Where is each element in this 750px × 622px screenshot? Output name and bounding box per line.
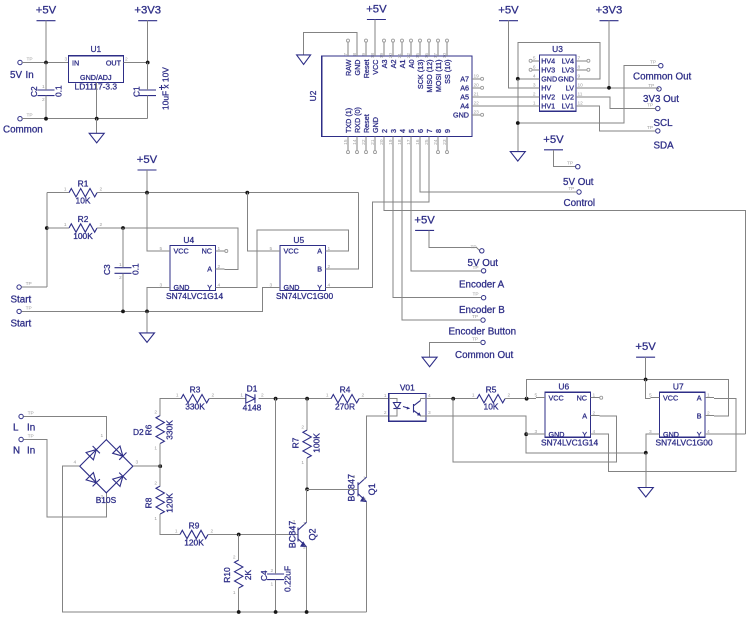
svg-text:Reset: Reset (362, 60, 371, 79)
wire LV row to 3V3 Out (585, 88, 659, 89)
svg-text:10: 10 (578, 82, 584, 88)
wire R1/R2 left vertical to Start (46, 193, 48, 287)
svg-text:1: 1 (176, 393, 179, 399)
ground under U1 (89, 133, 104, 143)
svg-text:Q1: Q1 (367, 483, 377, 495)
svg-text:LD1117-3.3: LD1117-3.3 (75, 82, 118, 92)
node 5V In / C2 junction (44, 61, 48, 65)
svg-text:TP: TP (472, 314, 478, 320)
testpoint Control (577, 190, 581, 194)
capacitor C3 0.1 (102, 262, 141, 281)
svg-text:R1: R1 (78, 179, 89, 189)
node R10/rail (237, 610, 241, 614)
wire Q2 emitter down (306, 547, 308, 612)
svg-text:U7: U7 (673, 382, 684, 392)
svg-text:SDA: SDA (654, 141, 675, 152)
U2 bottom pin 2 (383, 137, 385, 151)
testpoint L In (19, 414, 23, 418)
node U1 GND/common (95, 117, 99, 121)
wire Start2 ground rail (21, 288, 271, 312)
wire U2 A5 to U3 HV2 (480, 96, 531, 98)
testpoint 5V Out top (576, 165, 580, 169)
svg-text:HV4: HV4 (541, 56, 555, 65)
svg-text:10K: 10K (76, 196, 91, 206)
svg-text:4: 4 (398, 129, 407, 133)
svg-text:4148: 4148 (243, 403, 262, 413)
wire stub to ground under U1 (96, 119, 98, 134)
node V01 emitter/U6 GND (524, 432, 528, 436)
svg-text:D2: D2 (133, 427, 144, 437)
wire D1 to R4 (259, 398, 332, 400)
svg-text:U2: U2 (308, 90, 318, 101)
U3 right pin LV4 (576, 60, 587, 62)
svg-text:2: 2 (125, 57, 128, 63)
svg-text:22: 22 (406, 53, 412, 59)
testpoint SCL (656, 106, 660, 110)
U2 right pin A5 (472, 96, 480, 98)
svg-text:Reset: Reset (362, 114, 371, 133)
svg-text:VCC: VCC (174, 247, 189, 256)
wire U1 GND pin down (96, 82, 98, 118)
svg-text:1: 1 (363, 476, 366, 482)
U3 right pin GND (576, 78, 585, 80)
svg-text:In: In (27, 446, 35, 457)
svg-text:1: 1 (42, 84, 45, 90)
svg-text:OUT: OUT (106, 59, 122, 68)
wire R7 bottom to Q1 base node (306, 458, 308, 489)
wire R7 top (306, 399, 308, 430)
wire R3 to D1 (209, 398, 246, 400)
testpoint 5V In (18, 60, 22, 64)
svg-text:B: B (697, 411, 702, 420)
wire +5V to U3 HV (509, 21, 532, 88)
svg-text:D1: D1 (247, 384, 258, 394)
svg-text:GND: GND (371, 117, 380, 133)
svg-text:20: 20 (388, 53, 394, 59)
wire +5V to 5V Out TP (554, 150, 576, 167)
U3 left pin HV3 (532, 69, 539, 71)
node R2/C3 (121, 226, 125, 230)
svg-text:LV2: LV2 (562, 92, 574, 101)
resistor R8 120K (144, 481, 175, 523)
svg-text:SN74LVC1G14: SN74LVC1G14 (166, 291, 223, 301)
svg-text:2: 2 (533, 91, 536, 97)
svg-text:15: 15 (415, 53, 421, 59)
svg-text:RAW: RAW (344, 59, 353, 76)
U2 bottom pin GND (374, 137, 376, 151)
svg-text:B: B (317, 265, 322, 274)
regulator U1 LD1117-3.3 (65, 44, 129, 92)
svg-text:3: 3 (389, 129, 398, 133)
U2 bottom pin 9 (446, 137, 448, 151)
node Q2 emitter/rail (305, 610, 309, 614)
node R2 left (45, 226, 49, 230)
svg-text:6: 6 (416, 129, 425, 133)
svg-text:6: 6 (533, 64, 536, 70)
svg-text:22: 22 (474, 100, 480, 106)
svg-text:TP: TP (27, 113, 33, 119)
wire U6 GND stub join (526, 433, 536, 435)
wire +5V to 5V In net (45, 21, 47, 63)
svg-text:TP: TP (471, 245, 477, 251)
svg-text:1: 1 (384, 393, 387, 399)
node D1/C4 column (274, 397, 278, 401)
svg-text:VCC: VCC (284, 247, 299, 256)
node bridge+ R6/R8 (158, 464, 162, 468)
capacitor C2 0.1 (29, 84, 64, 103)
svg-text:SCK (13): SCK (13) (416, 60, 425, 90)
U2 right pin A6 (472, 87, 480, 89)
wire U4.Y to U5.A (225, 230, 349, 288)
svg-text:R7: R7 (291, 437, 301, 448)
U2 right pin GND (472, 114, 480, 116)
U2 top pin VCC (374, 42, 376, 56)
svg-text:Common Out: Common Out (633, 72, 692, 83)
svg-text:LV: LV (566, 83, 574, 92)
bridge diode bottom-right (113, 476, 123, 486)
svg-text:R6: R6 (144, 424, 154, 435)
node OUT junction (146, 61, 150, 65)
svg-text:120K: 120K (165, 493, 175, 513)
ground for U2 top GND (297, 55, 311, 65)
svg-text:0.1: 0.1 (131, 263, 141, 275)
wire Start1 to R1/R2 (21, 286, 47, 288)
wire C3 top (122, 228, 124, 268)
wire +5V to U4 VCC (147, 193, 161, 251)
svg-text:SCL: SCL (654, 118, 674, 129)
svg-text:R4: R4 (340, 385, 351, 395)
wire R9 to Q2 base (208, 534, 298, 536)
wire V01 collector to U6.A (453, 399, 616, 462)
U6 NC open circle (600, 396, 603, 399)
svg-text:18: 18 (397, 139, 403, 145)
wire bridge right to R6/R8 node (133, 465, 160, 467)
svg-text:A: A (317, 247, 322, 256)
node +3V3/LV junction (607, 86, 611, 90)
svg-text:8: 8 (434, 129, 443, 133)
svg-text:19: 19 (474, 73, 480, 79)
svg-text:3: 3 (428, 410, 431, 416)
wire Common Out to U3 GND column (518, 66, 659, 123)
svg-text:C3: C3 (102, 264, 112, 275)
svg-text:A7: A7 (460, 74, 469, 83)
svg-text:SN74LVC1G00: SN74LVC1G00 (656, 438, 713, 448)
svg-text:2: 2 (301, 425, 304, 431)
svg-text:A5: A5 (460, 92, 469, 101)
svg-text:GND: GND (541, 74, 557, 83)
U3 right pin LV (576, 87, 585, 89)
U2 bottom pin 5 (410, 137, 412, 151)
resistor R9 120K (175, 520, 214, 547)
svg-text:TP: TP (473, 265, 479, 271)
wire R1 net down to U5 VCC (247, 193, 271, 251)
svg-text:1: 1 (64, 187, 67, 193)
svg-text:U3: U3 (552, 44, 563, 54)
svg-text:20: 20 (474, 82, 480, 88)
ground for Common Out (422, 357, 437, 367)
node U3 GND left (516, 77, 520, 81)
resistor R2 100K (64, 214, 103, 241)
svg-text:10uF x 10V: 10uF x 10V (161, 67, 171, 110)
U2 top pin A1 (401, 42, 403, 56)
MCU module U2 (308, 56, 472, 137)
svg-text:3: 3 (65, 57, 68, 63)
wire R4 to V01 pin1 (359, 398, 389, 400)
wire Q1 collector to V01 pin2 (367, 416, 389, 477)
svg-text:HV: HV (541, 83, 551, 92)
svg-text:Encoder A: Encoder A (459, 280, 505, 291)
wire stub to ground under U4 (146, 311, 148, 333)
svg-text:16: 16 (415, 139, 421, 145)
svg-text:+3V3: +3V3 (134, 5, 161, 17)
svg-text:5: 5 (533, 55, 536, 61)
svg-text:2: 2 (363, 497, 366, 503)
svg-text:120K: 120K (184, 538, 204, 548)
resistor R3 330K (176, 385, 215, 412)
wire U2 pin5 to Encoder A (411, 151, 481, 271)
svg-text:2: 2 (100, 222, 103, 228)
svg-text:A2: A2 (389, 60, 398, 69)
svg-text:+3V3: +3V3 (596, 5, 623, 17)
svg-text:B10S: B10S (96, 495, 117, 505)
svg-text:In: In (27, 423, 35, 434)
testpoint 3V3 Out (657, 87, 661, 91)
svg-text:VCC: VCC (371, 60, 380, 75)
svg-text:3: 3 (352, 474, 355, 480)
svg-text:MOSI (11): MOSI (11) (434, 60, 443, 93)
svg-text:1: 1 (326, 393, 329, 399)
svg-text:R5: R5 (486, 385, 497, 395)
wire U7 GND down (646, 434, 651, 453)
U2 top pin SCK (13) (419, 42, 421, 56)
wire R8 bottom to R9 (160, 514, 180, 535)
bridge rectifier B10S (74, 433, 139, 505)
testpoint SDA (656, 129, 660, 133)
resistor R6 330K (144, 410, 175, 452)
svg-text:SN74LVC1G00: SN74LVC1G00 (276, 291, 333, 301)
svg-text:+5V: +5V (635, 341, 656, 353)
U2 right pin A4 (472, 105, 480, 107)
wire +5V to 5V Out TP (429, 230, 480, 250)
wire +5V column to R1 net (146, 170, 148, 193)
svg-text:TP: TP (26, 305, 32, 311)
testpoint 5V Out mid (480, 249, 484, 253)
U2 top pin Reset (365, 42, 367, 56)
svg-text:MISO (12): MISO (12) (425, 60, 434, 93)
testpoint Common (18, 117, 22, 121)
svg-text:19: 19 (388, 139, 394, 145)
node R7/Q1 base/Q2 collector (305, 487, 309, 491)
svg-text:HV1: HV1 (541, 101, 555, 110)
U2 bottom pin 6 (419, 137, 421, 151)
testpoint Encoder B (481, 296, 485, 300)
svg-text:A: A (207, 265, 212, 274)
wire +3V3 to U3 LV / 3V3 Out (608, 21, 610, 88)
svg-text:2: 2 (508, 393, 511, 399)
svg-text:21: 21 (370, 139, 376, 145)
svg-text:2: 2 (154, 481, 157, 487)
svg-text:LV3: LV3 (562, 65, 574, 74)
svg-text:A0: A0 (407, 60, 416, 69)
svg-text:1: 1 (271, 582, 274, 588)
wire R6 top to R3 line (160, 399, 181, 416)
svg-text:C4: C4 (259, 570, 269, 581)
svg-text:2: 2 (380, 129, 389, 133)
node R7 top (305, 397, 309, 401)
testpoint Common Out mid (481, 340, 485, 344)
ground for U3 (510, 152, 525, 162)
svg-text:2: 2 (233, 555, 236, 561)
svg-text:16: 16 (424, 53, 430, 59)
svg-text:U1: U1 (90, 44, 101, 54)
svg-text:270R: 270R (335, 402, 355, 412)
U2 top pin GND (356, 42, 358, 56)
wire C4 bottom (275, 580, 277, 612)
svg-text:17: 17 (433, 53, 439, 59)
svg-text:HV2: HV2 (541, 92, 555, 101)
svg-text:18: 18 (370, 53, 376, 59)
svg-text:+5V: +5V (36, 5, 57, 17)
svg-text:10K: 10K (484, 402, 499, 412)
svg-text:TP: TP (27, 57, 33, 63)
svg-text:2K: 2K (243, 569, 253, 580)
node +5V/U7 VCC (644, 378, 648, 382)
wire C4 column from D1 node (275, 399, 277, 574)
svg-text:3: 3 (136, 460, 139, 466)
svg-text:2: 2 (271, 568, 274, 574)
svg-text:12: 12 (578, 100, 584, 106)
svg-text:2: 2 (212, 393, 215, 399)
wire U2 top GND to ground (304, 33, 357, 55)
svg-text:21: 21 (474, 91, 480, 97)
svg-text:C1: C1 (132, 86, 142, 97)
node V01 collector/U6A (451, 397, 455, 401)
wire R5 to U6 VCC (505, 398, 536, 400)
wire U7.Y to right edge column (714, 433, 746, 435)
ground under U4 (140, 333, 155, 343)
svg-text:TP: TP (568, 186, 574, 192)
svg-text:+5V: +5V (137, 154, 158, 166)
svg-text:25: 25 (424, 139, 430, 145)
ground for U6/U7 (638, 488, 653, 498)
wire C3 bottom (122, 273, 124, 311)
U3 left pin HV1 (531, 105, 539, 107)
svg-text:14: 14 (352, 139, 358, 145)
wire +5V bar stub (645, 357, 647, 379)
svg-text:5V: 5V (10, 70, 22, 81)
inverter U4 SN74LVC1G14 (170, 246, 216, 291)
wire U3 LV2 to SCL (585, 97, 656, 109)
svg-text:9: 9 (578, 73, 581, 79)
svg-text:Start: Start (11, 295, 32, 306)
svg-text:8: 8 (352, 53, 358, 56)
svg-text:2: 2 (303, 545, 306, 551)
svg-text:1: 1 (533, 100, 536, 106)
wire +5V down to U7 VCC (646, 380, 651, 399)
U2 top pin A2 (392, 42, 394, 56)
svg-text:24: 24 (433, 139, 439, 145)
node C4/rail (274, 610, 278, 614)
svg-text:100K: 100K (312, 433, 322, 453)
svg-text:V01: V01 (400, 383, 415, 393)
svg-text:20: 20 (379, 139, 385, 145)
wire V01 emitter to U6 GND and gnd (426, 416, 646, 453)
svg-text:1: 1 (303, 521, 306, 527)
svg-text:2: 2 (100, 187, 103, 193)
svg-text:11: 11 (578, 91, 583, 97)
svg-text:TP: TP (473, 292, 479, 298)
svg-text:1: 1 (301, 460, 304, 466)
U2 bottom pin 7 (428, 137, 430, 151)
svg-text:9: 9 (443, 129, 452, 133)
svg-text:A: A (697, 393, 702, 402)
nand U5 SN74LVC1G00 (280, 246, 326, 291)
svg-text:RXD (0): RXD (0) (353, 107, 362, 133)
svg-text:GND: GND (558, 74, 574, 83)
svg-text:+5V: +5V (543, 134, 564, 146)
svg-text:2: 2 (261, 393, 264, 399)
svg-text:17: 17 (406, 139, 412, 145)
node C3/rail (121, 310, 125, 314)
wire V01 pin4 to R5 (426, 398, 477, 400)
svg-text:+5V: +5V (414, 214, 435, 226)
testpoint Start 2 (17, 309, 21, 313)
svg-text:4: 4 (533, 73, 536, 79)
testpoint Encoder Button (481, 318, 485, 322)
svg-text:21: 21 (397, 53, 403, 59)
wire U2 pin3 to Encoder B (393, 151, 481, 298)
wire U4 GND to rail (147, 288, 161, 312)
svg-text:7: 7 (343, 53, 349, 56)
svg-text:A: A (582, 411, 587, 420)
node R1/+5V/U4 VCC (145, 191, 149, 195)
svg-text:In: In (26, 70, 34, 81)
U2 bottom pin Reset (365, 137, 367, 151)
resistor R4 270R (326, 385, 365, 412)
svg-text:1: 1 (64, 222, 67, 228)
svg-text:SS (10): SS (10) (443, 60, 452, 84)
U2 bottom pin RXD (0) (356, 137, 358, 151)
svg-text:2: 2 (101, 494, 104, 500)
svg-text:A3: A3 (380, 60, 389, 69)
node C2/common (44, 117, 48, 121)
svg-text:LV4: LV4 (562, 56, 574, 65)
U3 left pin HV2 (531, 96, 539, 98)
testpoint Start 1 (17, 285, 21, 289)
svg-text:22: 22 (361, 139, 367, 145)
svg-text:R8: R8 (144, 497, 154, 508)
svg-text:TP: TP (647, 125, 653, 131)
resistor R7 100K (291, 425, 322, 467)
optocoupler V01 (384, 383, 431, 422)
bridge diode bottom-left (86, 473, 96, 483)
svg-text:1: 1 (175, 528, 178, 534)
svg-text:5: 5 (407, 129, 416, 133)
svg-text:TP: TP (28, 434, 34, 440)
svg-text:1: 1 (472, 393, 475, 399)
wire N In to bridge bottom (23, 440, 106, 517)
svg-text:4: 4 (428, 393, 431, 399)
wire R7 node to Q1 base (307, 488, 358, 490)
svg-text:1: 1 (119, 262, 122, 268)
U4 NC open circle (225, 250, 228, 253)
U3 left pin HV4 (532, 60, 539, 62)
wire U2 pin6 to Control (420, 151, 577, 193)
wire C1 bottom (147, 96, 149, 119)
svg-text:2: 2 (119, 275, 122, 281)
wire C2 top (45, 63, 47, 91)
U2 top pin A3 (383, 42, 385, 56)
